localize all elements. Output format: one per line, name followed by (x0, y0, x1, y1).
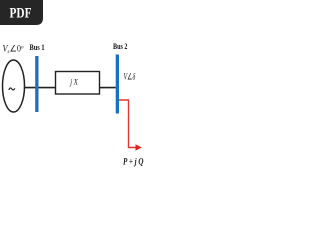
wire: box to Bus 2 (100, 87, 116, 89)
AC source G1 (generator circle) (3, 60, 25, 112)
bus bar Bus 2 (116, 55, 119, 114)
svg-text:Bus 2: Bus 2 (113, 42, 128, 51)
AC source tilde symbol (9, 88, 15, 90)
PDF badge (0, 0, 43, 25)
svg-text:P + j Q: P + j Q (123, 156, 144, 166)
wire: source to Bus 1 to box (25, 87, 56, 89)
power flow arrow P+jQ (red) (119, 100, 142, 151)
svg-text:j X: j X (70, 77, 79, 87)
bus bar Bus 1 (35, 56, 38, 112)
svg-text:Bus 1: Bus 1 (30, 43, 45, 52)
svg-text:V∠δ: V∠δ (124, 72, 136, 82)
reactance box jX (56, 72, 100, 95)
svg-text:Vs∠0o: Vs∠0o (3, 44, 24, 56)
svg-text:PDF: PDF (10, 5, 32, 21)
